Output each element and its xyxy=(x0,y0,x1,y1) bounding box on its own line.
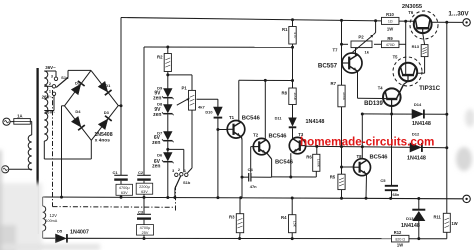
svg-text:T8: T8 xyxy=(356,154,362,159)
svg-text:BC557: BC557 xyxy=(318,62,338,69)
svg-text:R12: R12 xyxy=(394,230,402,235)
svg-text:T7: T7 xyxy=(332,48,338,53)
svg-text:BC546: BC546 xyxy=(268,133,287,139)
svg-text:T5: T5 xyxy=(393,55,399,60)
svg-text:R8: R8 xyxy=(282,91,288,96)
svg-text:68n: 68n xyxy=(393,192,400,197)
svg-text:T6: T6 xyxy=(408,10,414,15)
svg-text:TIP31C: TIP31C xyxy=(419,85,441,92)
svg-text:1N4007: 1N4007 xyxy=(70,230,89,236)
svg-text:D11: D11 xyxy=(275,116,283,121)
svg-text:100k: 100k xyxy=(317,159,321,167)
svg-text:C5: C5 xyxy=(380,178,386,183)
svg-text:1...30V: 1...30V xyxy=(448,10,469,17)
svg-text:100k: 100k xyxy=(342,92,346,100)
svg-text:R10: R10 xyxy=(386,12,394,17)
svg-text:820 Ω: 820 Ω xyxy=(395,237,405,241)
svg-text:R1: R1 xyxy=(282,27,288,32)
svg-text:zen: zen xyxy=(153,112,161,118)
svg-text:D13: D13 xyxy=(406,216,414,221)
svg-text:P2: P2 xyxy=(358,34,364,39)
svg-text:1N4148: 1N4148 xyxy=(407,155,426,161)
svg-text:T1: T1 xyxy=(229,115,235,120)
svg-text:R5: R5 xyxy=(330,174,336,179)
svg-text:1k: 1k xyxy=(365,50,370,55)
svg-text:C4: C4 xyxy=(248,167,254,172)
svg-text:D4: D4 xyxy=(75,109,81,114)
svg-text:15k: 15k xyxy=(293,221,297,227)
svg-text:2: 2 xyxy=(49,82,51,86)
svg-text:D10: D10 xyxy=(205,109,212,114)
svg-text:R4: R4 xyxy=(281,215,287,220)
svg-text:S1b: S1b xyxy=(183,180,191,185)
svg-text:1N4148: 1N4148 xyxy=(412,121,431,127)
svg-text:R6: R6 xyxy=(306,155,312,160)
svg-text:1Ω: 1Ω xyxy=(388,20,393,24)
svg-text:3: 3 xyxy=(51,74,53,78)
svg-text:R13: R13 xyxy=(412,44,420,49)
svg-text:R7: R7 xyxy=(331,81,337,86)
svg-text:zen: zen xyxy=(152,140,160,146)
svg-text:T2: T2 xyxy=(253,133,259,138)
svg-text:100k: 100k xyxy=(293,92,297,100)
svg-text:D6: D6 xyxy=(157,152,163,157)
svg-text:1: 1 xyxy=(49,90,51,94)
svg-text:D14: D14 xyxy=(414,102,422,107)
svg-text:1A: 1A xyxy=(17,114,22,119)
svg-text:2N3055: 2N3055 xyxy=(402,4,423,10)
svg-text:63V: 63V xyxy=(121,191,128,195)
svg-text:BC546: BC546 xyxy=(369,155,388,161)
svg-text:1W: 1W xyxy=(397,242,403,247)
svg-text:R11: R11 xyxy=(434,215,442,220)
svg-text:D2: D2 xyxy=(75,81,81,86)
svg-text:C1: C1 xyxy=(112,170,118,175)
svg-text:C2: C2 xyxy=(138,170,144,175)
svg-text:BD139: BD139 xyxy=(364,101,383,107)
svg-text:1N4148: 1N4148 xyxy=(306,119,325,125)
svg-text:D1: D1 xyxy=(105,83,111,88)
svg-text:25V: 25V xyxy=(142,231,149,235)
svg-text:63V: 63V xyxy=(141,190,148,194)
svg-text:D5: D5 xyxy=(57,228,63,233)
svg-text:homemade-circuits.com: homemade-circuits.com xyxy=(300,136,434,149)
svg-text:D3: D3 xyxy=(104,110,110,115)
svg-text:1N4148: 1N4148 xyxy=(401,223,420,229)
svg-text:1: 1 xyxy=(184,169,186,173)
svg-text:12V: 12V xyxy=(50,213,58,218)
svg-text:4700μ: 4700μ xyxy=(140,226,151,230)
svg-text:1N5408: 1N5408 xyxy=(94,132,112,138)
svg-text:P1: P1 xyxy=(182,85,188,90)
svg-text:D9: D9 xyxy=(157,85,163,90)
svg-text:4700μ: 4700μ xyxy=(119,186,130,190)
svg-text:R9: R9 xyxy=(387,36,393,41)
svg-text:100mA: 100mA xyxy=(46,219,58,223)
svg-text:T4: T4 xyxy=(378,86,384,91)
svg-text:BC546: BC546 xyxy=(242,115,261,121)
svg-text:36V~: 36V~ xyxy=(45,65,56,70)
svg-text:R2: R2 xyxy=(157,55,163,60)
svg-text:2200μ: 2200μ xyxy=(139,185,150,189)
svg-text:R3: R3 xyxy=(229,214,235,219)
svg-text:4k7: 4k7 xyxy=(198,104,205,109)
svg-text:470: 470 xyxy=(293,32,297,38)
svg-text:470Ω: 470Ω xyxy=(386,43,395,47)
svg-text:2: 2 xyxy=(178,168,180,172)
svg-text:47n: 47n xyxy=(250,184,257,189)
svg-text:zen: zen xyxy=(152,164,160,170)
svg-text:3: 3 xyxy=(172,169,174,173)
svg-text:1W: 1W xyxy=(387,26,393,31)
svg-text:26V~: 26V~ xyxy=(42,94,53,99)
svg-text:x 4nos: x 4nos xyxy=(95,138,111,144)
svg-text:1W: 1W xyxy=(452,221,458,226)
